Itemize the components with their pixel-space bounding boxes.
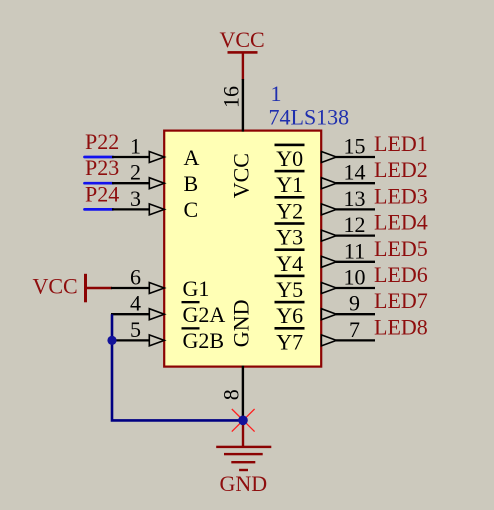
pin 11 arrowhead: [321, 256, 336, 267]
svg-text:4: 4: [130, 291, 141, 316]
svg-text:VCC: VCC: [220, 27, 265, 52]
pin 2 arrowhead: [149, 178, 164, 189]
overbar of Y4: [275, 248, 305, 251]
pin 14 arrowhead: [321, 178, 336, 189]
ground symbol bar 2: [224, 453, 263, 455]
pin 9 wire: [336, 313, 375, 315]
pin 11 wire: [336, 261, 375, 263]
overbar of Y2: [275, 196, 305, 199]
pin 2 wire: [112, 182, 150, 184]
overbar of Y7: [275, 327, 305, 330]
pin 1 arrowhead: [149, 152, 164, 163]
pin 5 wire: [111, 339, 150, 341]
svg-text:LED6: LED6: [374, 262, 428, 287]
ground symbol bar 1: [216, 446, 271, 448]
svg-text:7: 7: [349, 317, 360, 342]
pin 4 wire: [111, 313, 150, 315]
junction dot at pin 5: [107, 336, 116, 345]
pin 1 wire: [112, 156, 150, 158]
svg-text:P24: P24: [85, 181, 119, 206]
overbar of G2A: [182, 301, 200, 303]
wire pin 8 to junction: [242, 366, 244, 421]
pin 3 wire: [112, 208, 150, 210]
svg-text:15: 15: [344, 134, 366, 159]
svg-text:13: 13: [344, 186, 366, 211]
overbar of Y0: [275, 144, 305, 147]
pin 15 arrowhead: [321, 152, 336, 163]
svg-text:B: B: [184, 171, 199, 196]
svg-text:Y7: Y7: [276, 329, 303, 354]
overbar of Y6: [275, 301, 305, 304]
pin 14 wire: [336, 182, 375, 184]
svg-text:1: 1: [130, 134, 141, 159]
pin 7 wire: [336, 339, 375, 341]
svg-text:3: 3: [130, 186, 141, 211]
overbar of Y3: [275, 222, 305, 225]
svg-text:2: 2: [130, 160, 141, 185]
pin 4 arrowhead: [149, 309, 164, 320]
svg-text:Y2: Y2: [276, 198, 303, 223]
wire net P23 stub (blue): [85, 182, 114, 185]
svg-text:Y5: Y5: [276, 277, 303, 302]
svg-text:LED8: LED8: [374, 314, 428, 339]
pin 15 wire: [336, 156, 375, 158]
pin 9 arrowhead: [321, 309, 336, 320]
pin 10 arrowhead: [321, 283, 336, 294]
pin 10 wire: [336, 287, 375, 289]
svg-text:14: 14: [344, 160, 366, 185]
svg-text:VCC: VCC: [229, 153, 254, 198]
overbar of Y1: [275, 170, 305, 173]
svg-text:LED5: LED5: [374, 236, 428, 261]
IC U1 74LS138 body: [164, 131, 321, 367]
svg-text:GND: GND: [220, 471, 268, 496]
svg-text:Y6: Y6: [276, 303, 303, 328]
svg-text:G1: G1: [183, 276, 210, 301]
wire net P24 stub (blue): [85, 208, 114, 211]
svg-text:GND: GND: [229, 300, 254, 348]
svg-text:Y0: Y0: [276, 146, 303, 171]
svg-text:1: 1: [271, 81, 282, 106]
svg-text:A: A: [184, 145, 200, 170]
wire G2A/G2B to GND (navy): [112, 314, 243, 420]
svg-text:P23: P23: [85, 155, 119, 180]
svg-text:LED7: LED7: [374, 288, 428, 313]
svg-text:74LS138: 74LS138: [269, 104, 350, 129]
svg-text:LED4: LED4: [374, 210, 428, 235]
svg-text:12: 12: [344, 212, 366, 237]
svg-text:G2A: G2A: [183, 302, 226, 327]
svg-text:C: C: [184, 197, 199, 222]
svg-text:LED1: LED1: [374, 131, 428, 156]
svg-text:Y3: Y3: [276, 225, 303, 250]
pin 12 arrowhead: [321, 230, 336, 241]
pin 5 arrowhead: [149, 335, 164, 346]
no-ERC marker X (red): [232, 409, 255, 432]
wire GND stem (dark red): [242, 420, 244, 447]
wire VCC stem (dark red): [242, 52, 244, 80]
pin 7 arrowhead: [321, 335, 336, 346]
pin 6 arrowhead: [149, 283, 164, 294]
ground symbol bar 4: [239, 469, 248, 471]
overbar of Y5: [275, 275, 305, 278]
svg-text:VCC: VCC: [33, 274, 78, 299]
pin 3 arrowhead: [149, 204, 164, 215]
svg-text:Y4: Y4: [276, 251, 303, 276]
junction dot at GND node: [238, 416, 248, 426]
svg-text:LED2: LED2: [374, 157, 428, 182]
svg-text:6: 6: [130, 265, 141, 290]
pin 13 arrowhead: [321, 204, 336, 215]
power symbol VCC (top) bar: [228, 51, 258, 54]
pin 6 wire: [111, 287, 150, 289]
svg-text:LED3: LED3: [374, 183, 428, 208]
svg-text:16: 16: [219, 86, 244, 108]
svg-text:5: 5: [130, 317, 141, 342]
power symbol VCC (left) bar: [84, 274, 87, 303]
wire VCC to pin 6 (dark red): [86, 287, 113, 289]
svg-text:11: 11: [344, 238, 365, 263]
svg-text:P22: P22: [85, 129, 119, 154]
svg-text:Y1: Y1: [276, 172, 303, 197]
svg-text:9: 9: [349, 291, 360, 316]
svg-text:G2B: G2B: [183, 328, 225, 353]
wire net P22 stub (blue): [85, 156, 114, 159]
svg-text:8: 8: [219, 389, 244, 400]
pin 12 wire: [336, 234, 375, 236]
svg-text:10: 10: [344, 265, 366, 290]
wire pin 16 to VCC: [242, 79, 244, 132]
pin 13 wire: [336, 208, 375, 210]
overbar of G2B: [182, 327, 200, 329]
ground symbol bar 3: [231, 461, 255, 463]
